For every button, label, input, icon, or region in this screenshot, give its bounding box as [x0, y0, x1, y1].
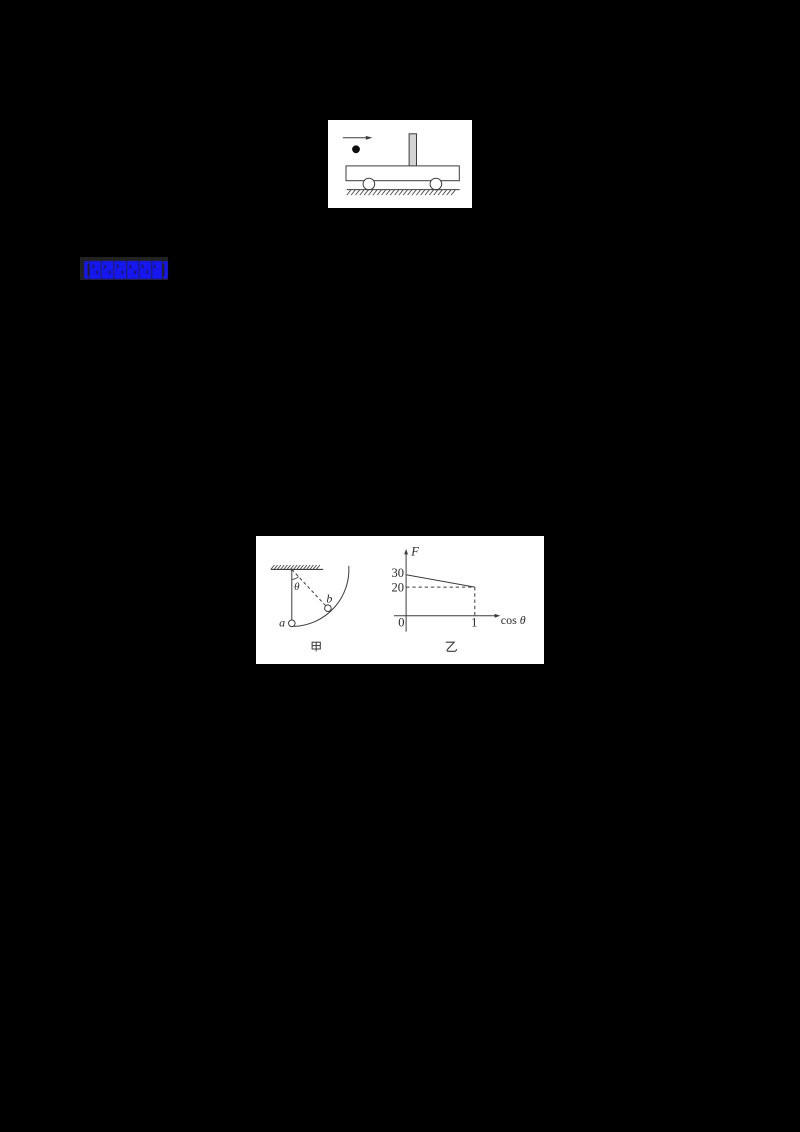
- svg-text:1: 1: [471, 615, 477, 629]
- bowl arc: [294, 565, 349, 626]
- svg-text:0: 0: [398, 615, 404, 629]
- post on cart: [409, 133, 416, 165]
- y axis (F): [404, 548, 408, 631]
- vertical string to ball a: [291, 569, 293, 623]
- yi glyph (drawn): [446, 642, 457, 651]
- left wheel: [363, 178, 375, 190]
- dashed drop at cos=1: [474, 587, 476, 616]
- svg-text:a: a: [279, 615, 285, 629]
- ground line: [346, 188, 459, 190]
- ball a: [288, 620, 295, 627]
- svg-text:20: 20: [391, 580, 404, 594]
- dashed radius to ball b: [292, 569, 328, 607]
- velocity arrow: [342, 135, 372, 139]
- x axis (cos theta): [394, 613, 500, 617]
- blue label with dark backing: [80, 257, 169, 280]
- pivot dot: [290, 568, 292, 570]
- right wheel: [430, 178, 442, 190]
- angle arc: [292, 576, 299, 579]
- cart body: [346, 165, 459, 180]
- dashed level 20: [406, 586, 475, 588]
- svg-text:cos θ: cos θ: [501, 613, 526, 627]
- blue squeezed bold text blob: [82, 258, 170, 282]
- ground hatching: [346, 189, 455, 194]
- ceiling line: [271, 568, 323, 570]
- ball (projectile): [352, 145, 360, 153]
- svg-text:F: F: [410, 544, 419, 558]
- svg-text:b: b: [326, 591, 332, 605]
- jia glyph (drawn): [312, 642, 320, 651]
- F(cos) line: [406, 574, 475, 586]
- figure box: cart with vertical post, flying ball: [328, 120, 473, 209]
- ball b: [324, 604, 331, 611]
- svg-text:θ: θ: [294, 581, 300, 593]
- ceiling hatching: [271, 565, 320, 569]
- svg-text:30: 30: [391, 566, 404, 580]
- figure box: pendulum/bowl (jia) and F vs cos-theta graph (yi): [256, 536, 544, 664]
